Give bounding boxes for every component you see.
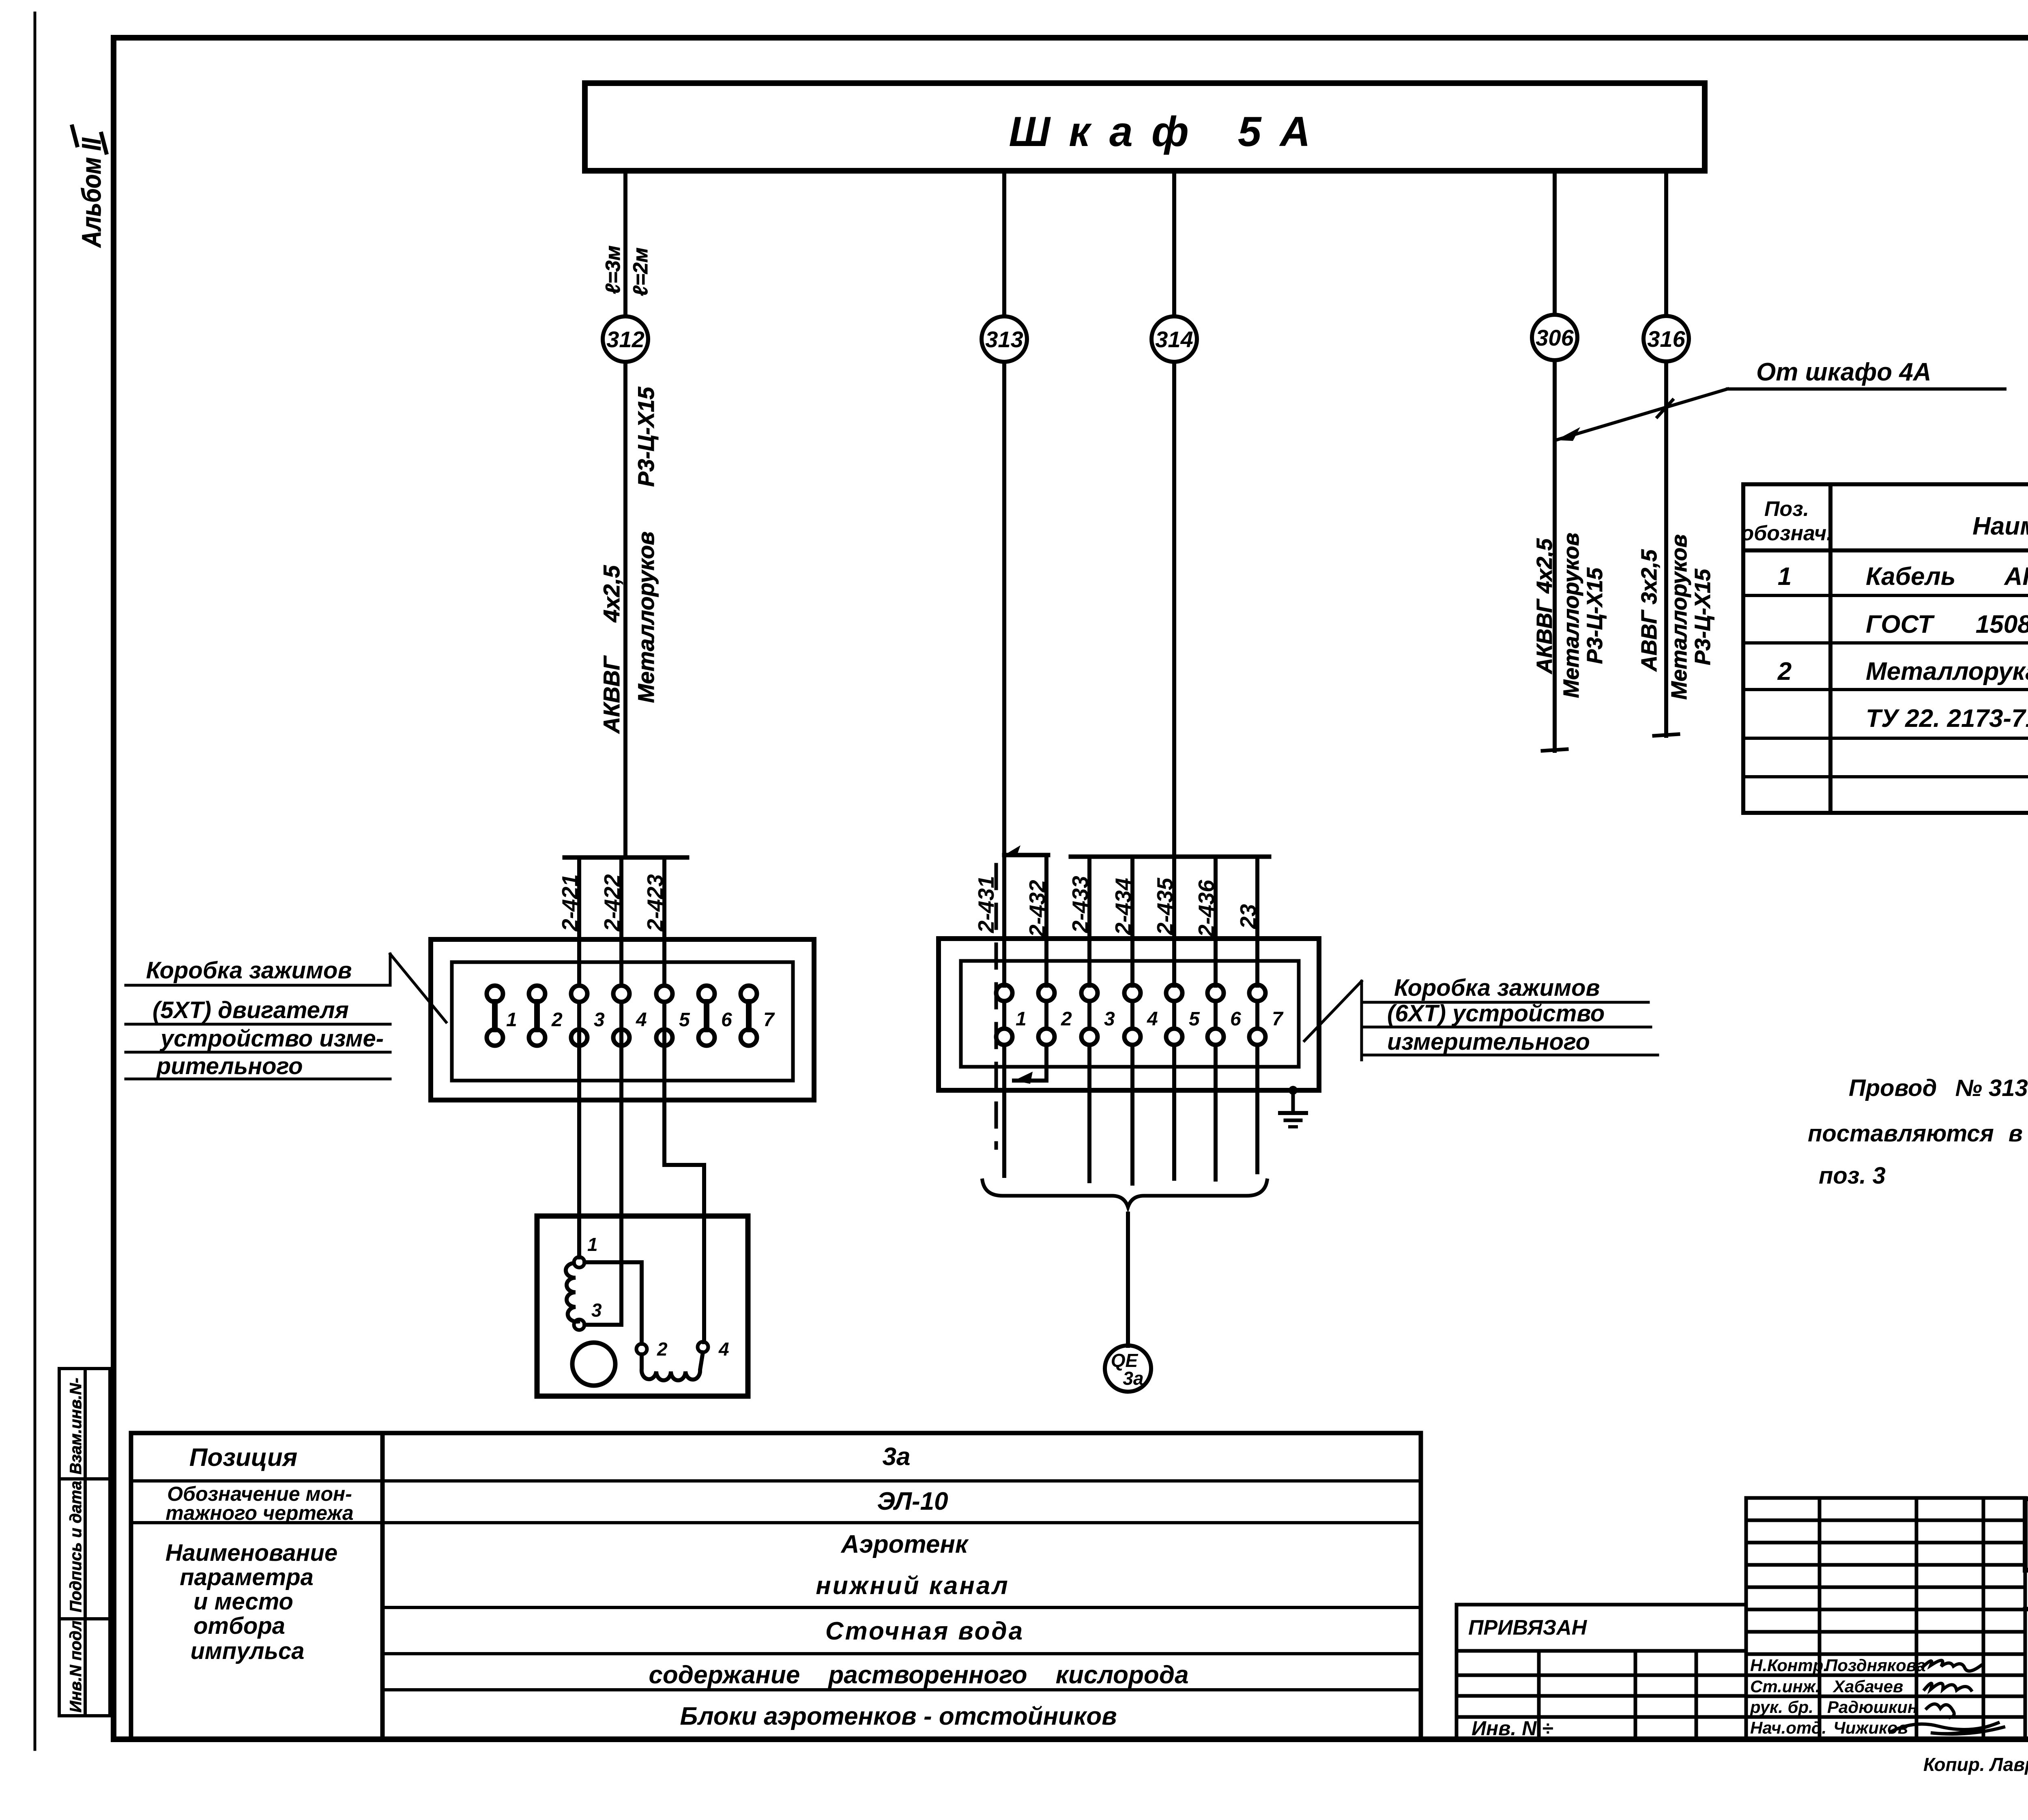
svg-text:обознач.: обознач. — [1741, 522, 1832, 545]
svg-text:Поз.: Поз. — [1764, 497, 1809, 521]
instrument QE 3a — [1105, 1345, 1151, 1392]
svg-text:4: 4 — [1147, 1008, 1158, 1030]
svg-text:2: 2 — [657, 1339, 668, 1360]
terminal 1 (6ХТ) — [996, 985, 1012, 1045]
wire 306 upper segment — [1553, 171, 1557, 315]
svg-text:1: 1 — [1016, 1008, 1027, 1030]
svg-text:4: 4 — [636, 1009, 647, 1031]
page outer left edge line — [34, 13, 37, 1749]
balloon 313 — [982, 316, 1027, 362]
svg-text:(6ХТ) устройство: (6ХТ) устройство — [1387, 1000, 1605, 1027]
svg-text:312: 312 — [606, 327, 644, 352]
svg-text:2-434: 2-434 — [1111, 878, 1136, 935]
wire 306 end tick — [1542, 749, 1567, 751]
wire 306 lower segment — [1553, 360, 1557, 751]
svg-text:АКВВГ 4х2,5: АКВВГ 4х2,5 — [1532, 538, 1557, 675]
stub from terminal 3 to wire 2-422 — [584, 1323, 621, 1327]
label lines Коробка зажимов 6ХТ — [1304, 981, 1658, 1060]
junction bus long above box 6ХТ — [1071, 855, 1269, 859]
parts table header — [1741, 497, 2028, 734]
svg-text:Наименование: Наименование — [1972, 512, 2028, 540]
wire 2-433 branch — [1087, 857, 1091, 986]
terminal 4 (6ХТ) — [1124, 985, 1141, 1045]
svg-text:отбора: отбора — [193, 1613, 285, 1639]
terminal box 5ХТ outer — [431, 939, 814, 1100]
title block: document number cell — [2025, 1499, 2028, 1570]
svg-text:Р3-Ц-Х15: Р3-Ц-Х15 — [1691, 569, 1715, 665]
svg-text:Блоки аэротенков - отстойнико: Блоки аэротенков - отстойников — [680, 1702, 1117, 1730]
label lines Коробка зажимов 5ХТ — [126, 954, 446, 1079]
svg-text:Нач.отд.: Нач.отд. — [1750, 1718, 1826, 1737]
svg-text:Инв. N ÷: Инв. N ÷ — [1472, 1717, 1553, 1740]
svg-text:МеталлоруковР3-Ц-Х15: МеталлоруковР3-Ц-Х15 — [633, 387, 659, 703]
note От шкафа 4А with leader — [1556, 358, 2005, 441]
svg-text:5: 5 — [1189, 1008, 1200, 1030]
balloon 316 — [1643, 316, 1689, 361]
svg-text:Р3-Ц-Х15: Р3-Ц-Х15 — [1583, 567, 1607, 664]
svg-text:От шкафо 4А: От шкафо 4А — [1756, 358, 1931, 386]
wire from terminal 3 (6ХТ) down — [1087, 1045, 1091, 1181]
terminal 7 (6ХТ) — [1249, 985, 1265, 1045]
brace under box 6ХТ — [982, 1180, 1267, 1207]
svg-text:1: 1 — [587, 1234, 598, 1255]
wire from terminal 2 (6ХТ) jog with arrow — [1014, 1045, 1046, 1081]
svg-text:314: 314 — [1155, 327, 1193, 352]
svg-text:Коробка зажимов: Коробка зажимов — [146, 957, 352, 984]
svg-text:и место: и место — [193, 1588, 293, 1615]
svg-text:3: 3 — [1104, 1008, 1115, 1030]
svg-text:Сточная вода: Сточная вода — [825, 1617, 1024, 1645]
terminal 3 (6ХТ) — [1081, 985, 1098, 1045]
svg-text:Радюшкин: Радюшкин — [1827, 1698, 1918, 1717]
svg-text:7: 7 — [763, 1009, 775, 1031]
svg-text:импульса: импульса — [190, 1638, 304, 1664]
wire 2-434 branch — [1130, 857, 1134, 986]
svg-text:Подпись и дата: Подпись и дата — [67, 1481, 85, 1612]
svg-text:Ст.инж.: Ст.инж. — [1750, 1677, 1820, 1696]
terminal box 6ХТ outer — [939, 939, 1319, 1090]
terminal 5 (6ХТ) — [1166, 985, 1182, 1045]
svg-text:ПРИВЯЗАН: ПРИВЯЗАН — [1468, 1616, 1588, 1640]
svg-text:3а: 3а — [883, 1443, 911, 1471]
wire 314 upper segment — [1172, 171, 1176, 316]
parts table frame — [1743, 484, 2028, 813]
svg-text:313: 313 — [985, 327, 1023, 352]
device terminal 4 — [698, 1342, 708, 1352]
wire from brace to instrument QE — [1126, 1214, 1130, 1346]
balloon 306 — [1532, 315, 1577, 360]
svg-text:2-435: 2-435 — [1152, 877, 1177, 935]
stub from terminal 1 to terminal 2 branch — [584, 1262, 642, 1344]
svg-text:Шкаф 5А: Шкаф 5А — [1009, 108, 1329, 155]
terminal 2 (5ХТ) — [529, 986, 545, 1046]
wire 313 lower segment to terminal 1 of box 6ХТ — [1002, 362, 1006, 986]
svg-text:2: 2 — [1777, 658, 1792, 685]
motor circle — [572, 1343, 615, 1386]
svg-text:306: 306 — [1536, 325, 1574, 350]
measuring device box (motor) — [537, 1216, 748, 1396]
svg-text:рук. бр.: рук. бр. — [1750, 1698, 1813, 1717]
svg-text:тажного чертежа: тажного чертежа — [165, 1502, 353, 1524]
svg-text:Позднякова: Позднякова — [1825, 1656, 1926, 1675]
svg-text:Наименование: Наименование — [165, 1540, 337, 1566]
balloon 312 — [603, 316, 648, 362]
svg-text:Н.Контр.: Н.Контр. — [1750, 1656, 1828, 1675]
svg-text:2-433: 2-433 — [1068, 876, 1093, 933]
svg-text:Инв.N подл.: Инв.N подл. — [67, 1616, 85, 1713]
svg-text:1: 1 — [1778, 563, 1792, 591]
svg-text:2: 2 — [551, 1009, 563, 1031]
balloon 314 — [1151, 316, 1197, 362]
device terminal 1 — [574, 1257, 584, 1268]
svg-text:Металлоруков: Металлоруков — [1667, 534, 1691, 700]
svg-text:Металлоруков: Металлоруков — [1559, 533, 1583, 698]
terminal 5 (5ХТ) — [656, 986, 672, 1046]
terminal 2 (6ХТ) — [1038, 985, 1055, 1045]
svg-text:23: 23 — [1235, 904, 1261, 929]
album label "Альбом II" (rotated) — [72, 127, 106, 248]
svg-text:2-423: 2-423 — [642, 874, 668, 932]
terminal 4 (5ХТ) — [613, 986, 629, 1046]
svg-text:Коробка зажимов: Коробка зажимов — [1394, 975, 1600, 1001]
terminal box 6ХТ inner — [961, 961, 1299, 1067]
svg-text:2-436: 2-436 — [1194, 880, 1219, 937]
left margin inventory strip — [59, 1369, 110, 1716]
junction bus short above box 6ХТ — [1004, 853, 1048, 857]
wire from terminal 4 (6ХТ) down — [1130, 1045, 1134, 1184]
wire 314 lower segment through box 6ХТ — [1172, 362, 1176, 986]
svg-text:Копир. Лаврушина: Копир. Лаврушина — [1923, 1754, 2028, 1775]
svg-text:поз. 3: поз. 3 — [1819, 1162, 1886, 1189]
svg-text:2-431: 2-431 — [973, 876, 999, 933]
svg-text:3: 3 — [591, 1300, 602, 1321]
svg-text:2: 2 — [1061, 1008, 1072, 1030]
wire from terminal 7 (6ХТ) down — [1255, 1045, 1259, 1172]
svg-text:2-421: 2-421 — [557, 874, 582, 932]
wire 2-422 through box 5ХТ down to device — [619, 1002, 623, 1325]
svg-text:ЭЛ-10: ЭЛ-10 — [877, 1487, 948, 1515]
svg-text:содержаниерастворенногокислоро: содержаниерастворенногокислорода — [649, 1661, 1188, 1689]
terminal box 5ХТ inner — [452, 962, 793, 1081]
signature scribbles — [1890, 1660, 2004, 1734]
wire 2-421 through box 5ХТ down to device — [577, 1002, 581, 1257]
wire from terminal 5 (6ХТ) down — [1172, 1045, 1176, 1179]
wire 2-421 branch — [577, 857, 581, 986]
svg-text:нижний канал: нижний канал — [816, 1572, 1009, 1600]
title block: signature stamp grid — [1746, 1498, 2025, 1739]
svg-text:3: 3 — [594, 1009, 605, 1031]
device terminal 3 — [574, 1319, 584, 1330]
svg-text:5: 5 — [679, 1009, 690, 1031]
terminal 3 (5ХТ) — [571, 986, 587, 1046]
wire from terminal 1 (6ХТ) down — [1002, 1045, 1006, 1176]
svg-text:Взам.инв.N-: Взам.инв.N- — [67, 1378, 85, 1474]
svg-text:2-422: 2-422 — [599, 874, 625, 932]
svg-text:Альбом II: Альбом II — [76, 138, 106, 248]
svg-text:измерительного: измерительного — [1387, 1029, 1590, 1055]
wire 313 upper segment — [1002, 171, 1006, 316]
wire 2-422 branch — [619, 857, 623, 986]
svg-text:ТУ 22. 2173-71: ТУ 22. 2173-71 — [1866, 705, 2028, 733]
svg-text:Хабачев: Хабачев — [1833, 1677, 1903, 1696]
svg-text:316: 316 — [1647, 326, 1685, 352]
terminal 7 (5ХТ) — [741, 986, 757, 1046]
coil between terminals 2 and 4 — [642, 1352, 703, 1380]
terminal 6 (5ХТ) — [698, 986, 715, 1046]
svg-text:устройство изме-: устройство изме- — [159, 1025, 384, 1052]
cabinet box Шкаф 5А — [585, 83, 1705, 171]
device terminal 2 — [636, 1344, 647, 1354]
terminal 1 (5ХТ) — [487, 986, 503, 1046]
svg-text:6: 6 — [1230, 1008, 1241, 1030]
title block: привязан section — [1457, 1605, 1746, 1739]
svg-text:ℓ=2м: ℓ=2м — [629, 247, 652, 296]
wire 316 upper segment — [1664, 171, 1668, 316]
svg-text:7: 7 — [1272, 1008, 1284, 1030]
wire 2-436 branch — [1214, 857, 1218, 986]
svg-text:2-432: 2-432 — [1025, 880, 1050, 937]
ground symbol at box 6ХТ — [1280, 1086, 1306, 1127]
svg-text:параметра: параметра — [180, 1564, 314, 1590]
svg-text:4: 4 — [718, 1339, 729, 1360]
svg-text:АВВГ 3х2,5: АВВГ 3х2,5 — [1637, 549, 1661, 672]
note Провод № 313 и кабель № 314 — [1808, 1075, 2028, 1189]
wire from terminal 6 (6ХТ) down — [1214, 1045, 1218, 1180]
svg-text:6: 6 — [721, 1009, 732, 1031]
svg-text:рительного: рительного — [156, 1053, 303, 1079]
wire 312 lower segment to junction bus — [623, 362, 627, 857]
svg-text:(5ХТ) двигателя: (5ХТ) двигателя — [153, 997, 349, 1023]
terminal 6 (6ХТ) — [1207, 985, 1224, 1045]
junction bus above box 5ХТ — [565, 855, 687, 860]
title block: horizontal line below empty band — [2025, 1607, 2028, 1612]
svg-text:1: 1 — [506, 1009, 517, 1031]
svg-text:Аэротенк: Аэротенк — [840, 1530, 969, 1558]
wire 316 end tick — [1654, 734, 1678, 736]
svg-text:МеталлорукавР3-Ц-Х15: МеталлорукавР3-Ц-Х15 — [1866, 658, 2028, 685]
wire 23 branch — [1255, 857, 1259, 986]
wire 2-423 through box 5ХТ with jog down to device — [664, 1002, 704, 1342]
wire 316 lower segment — [1664, 361, 1668, 736]
svg-text:Позиция: Позиция — [189, 1444, 297, 1472]
dashed wire 2-431 — [995, 865, 998, 1148]
wire 2-432 branch — [1044, 855, 1048, 986]
coil between terminals 1 and 3 — [566, 1263, 578, 1321]
parameter table bottom left — [131, 1433, 1421, 1739]
svg-text:ℓ=3м: ℓ=3м — [602, 245, 624, 294]
wire 312 upper segment — [623, 171, 627, 316]
svg-text:3а: 3а — [1123, 1368, 1143, 1389]
wire 2-423 branch — [662, 857, 666, 986]
